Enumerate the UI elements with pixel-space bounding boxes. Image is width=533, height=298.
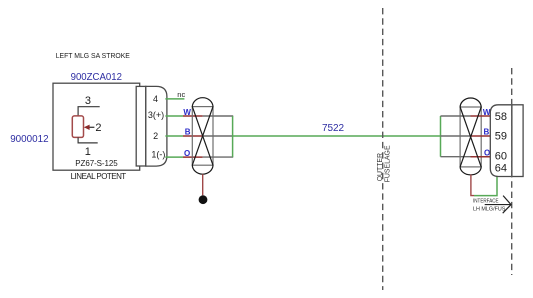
- wire pin4 nc stub: [165, 98, 184, 100]
- svg-text:1: 1: [85, 146, 91, 158]
- svg-text:B: B: [484, 127, 490, 136]
- green bundle vertical left: [232, 116, 234, 157]
- svg-text:4: 4: [153, 94, 158, 104]
- svg-text:2: 2: [95, 122, 101, 134]
- connector J1 body (D-shape): [146, 86, 167, 166]
- svg-text:nc: nc: [177, 90, 185, 99]
- svg-text:FUSELAGE: FUSELAGE: [385, 145, 392, 182]
- connector P2 shell (tall rect): [512, 105, 523, 177]
- shield drain right to pin 64 (green part): [474, 177, 497, 196]
- twisted pair cap top left: [192, 98, 213, 107]
- gray continuation O row right: [441, 156, 471, 158]
- svg-text:64: 64: [495, 162, 507, 174]
- gray continuation O row left: [203, 156, 234, 158]
- terminal 3 lead: [78, 107, 100, 116]
- interface arrowhead: [503, 196, 511, 214]
- svg-text:B: B: [185, 127, 191, 136]
- dashed line interface LH MLG/FUS: [511, 68, 513, 275]
- instrument box (lineal potentiometer unit): [53, 83, 140, 170]
- svg-text:LINEAL POTENT: LINEAL POTENT: [71, 172, 127, 181]
- twist X right: [460, 107, 481, 167]
- potentiometer element R: [72, 116, 83, 137]
- gray continuation W row right: [441, 115, 471, 117]
- shield drain right (red part): [471, 175, 474, 196]
- svg-text:1(-): 1(-): [151, 150, 165, 160]
- svg-text:3(+): 3(+): [148, 110, 164, 120]
- green bundle vertical right: [440, 116, 442, 157]
- wire pin1 O green segment: [165, 156, 183, 158]
- shield termination dot: [199, 195, 208, 204]
- wiper arrow (terminal 2): [89, 126, 95, 128]
- svg-text:3: 3: [85, 95, 91, 107]
- gray continuation B row right: [441, 135, 471, 137]
- connector P1 shell (narrow rect): [136, 86, 146, 166]
- dashed line OUTTER FUSELAGE: [382, 8, 384, 290]
- svg-text:58: 58: [495, 111, 507, 123]
- shield rect left (around twist symbol): [192, 107, 213, 166]
- wire W red segment right: [471, 115, 492, 117]
- wire O red segment: [183, 156, 203, 158]
- svg-text:7522: 7522: [322, 123, 344, 134]
- wire B red segment right: [471, 135, 492, 137]
- wire pin2 B green segment: [165, 135, 183, 137]
- terminal 1 lead: [78, 137, 98, 143]
- svg-text:PZ67-S-125: PZ67-S-125: [75, 159, 118, 168]
- svg-text:O: O: [484, 148, 490, 157]
- svg-text:9000012: 9000012: [10, 133, 49, 145]
- svg-text:900ZCA012: 900ZCA012: [71, 71, 123, 83]
- wire B red segment: [183, 135, 203, 137]
- gray continuation W row left: [203, 115, 234, 117]
- wire pin3 W green segment: [165, 115, 183, 117]
- shield drain stub left: [202, 174, 204, 195]
- svg-text:2: 2: [153, 131, 158, 141]
- connector J2 body (D-shape mirrored): [490, 105, 512, 177]
- svg-text:60: 60: [495, 150, 507, 162]
- twist X left: [192, 107, 213, 166]
- wire 7522 (fuselage run): [233, 135, 441, 137]
- wire W red segment: [183, 115, 203, 117]
- svg-text:W: W: [183, 108, 191, 117]
- twisted pair cap top right: [460, 98, 481, 107]
- twisted pair cap bottom right: [460, 167, 481, 175]
- wire O red segment right: [471, 156, 492, 158]
- gray continuation B row left: [203, 135, 234, 137]
- svg-text:OUTTER: OUTTER: [377, 153, 384, 181]
- twisted pair cap bottom left: [192, 165, 213, 174]
- svg-text:59: 59: [495, 130, 507, 142]
- interface arrow shaft: [485, 204, 511, 206]
- svg-text:LEFT MLG SA STROKE: LEFT MLG SA STROKE: [56, 51, 130, 60]
- svg-text:LH MLG/FUS: LH MLG/FUS: [473, 207, 506, 213]
- svg-text:INTERFACE: INTERFACE: [473, 199, 499, 205]
- svg-text:O: O: [184, 149, 190, 158]
- shield rect right: [460, 107, 481, 167]
